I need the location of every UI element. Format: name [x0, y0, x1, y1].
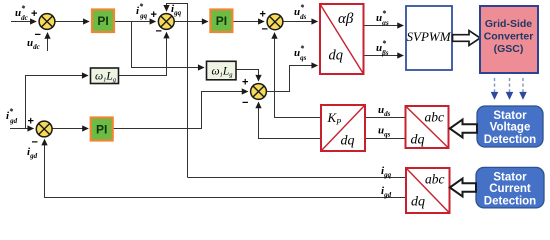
- svg-text:u*qs: u*qs: [294, 44, 307, 62]
- svg-text:Stator: Stator: [493, 110, 527, 122]
- svg-text:Detection: Detection: [484, 134, 536, 146]
- svg-text:(GSC): (GSC): [494, 43, 524, 55]
- svg-text:+: +: [242, 77, 248, 89]
- svg-text:+: +: [28, 116, 34, 128]
- svg-text:SVPWM: SVPWM: [407, 29, 452, 44]
- svg-text:uqs: uqs: [378, 125, 391, 139]
- svg-text:PI: PI: [216, 14, 227, 28]
- svg-text:u*ds: u*ds: [294, 3, 307, 21]
- svg-text:u*βs: u*βs: [376, 39, 389, 57]
- svg-text:Detection: Detection: [484, 196, 536, 208]
- svg-text:PI: PI: [97, 14, 108, 28]
- svg-text:αβ: αβ: [338, 11, 354, 27]
- svg-text:−: −: [32, 137, 38, 149]
- svg-text:i*gq: i*gq: [136, 2, 148, 20]
- svg-text:uds: uds: [378, 104, 391, 118]
- svg-text:−: −: [35, 29, 41, 41]
- svg-text:Grid-Side: Grid-Side: [485, 18, 532, 30]
- svg-text:dq: dq: [411, 195, 425, 210]
- svg-text:−: −: [262, 24, 268, 36]
- svg-text:igq: igq: [381, 165, 392, 179]
- svg-text:dq: dq: [341, 134, 355, 149]
- svg-text:Current: Current: [489, 183, 531, 195]
- svg-text:dq: dq: [329, 48, 344, 64]
- svg-text:Converter: Converter: [484, 31, 534, 43]
- svg-text:+: +: [151, 9, 157, 21]
- svg-text:abc: abc: [425, 172, 445, 187]
- svg-text:igd: igd: [381, 185, 392, 199]
- svg-text:−: −: [156, 26, 162, 38]
- svg-text:u*αs: u*αs: [376, 9, 389, 27]
- svg-text:−: −: [242, 97, 248, 109]
- svg-text:u*dc: u*dc: [15, 4, 28, 22]
- svg-text:i*gd: i*gd: [6, 107, 18, 125]
- svg-text:abc: abc: [425, 110, 445, 125]
- svg-text:+: +: [260, 9, 266, 21]
- svg-text:dq: dq: [411, 133, 425, 148]
- svg-text:igq: igq: [171, 3, 182, 17]
- svg-text:+: +: [31, 8, 37, 20]
- svg-text:Voltage: Voltage: [490, 122, 531, 134]
- svg-text:PI: PI: [96, 123, 107, 137]
- svg-text:Stator: Stator: [493, 172, 527, 184]
